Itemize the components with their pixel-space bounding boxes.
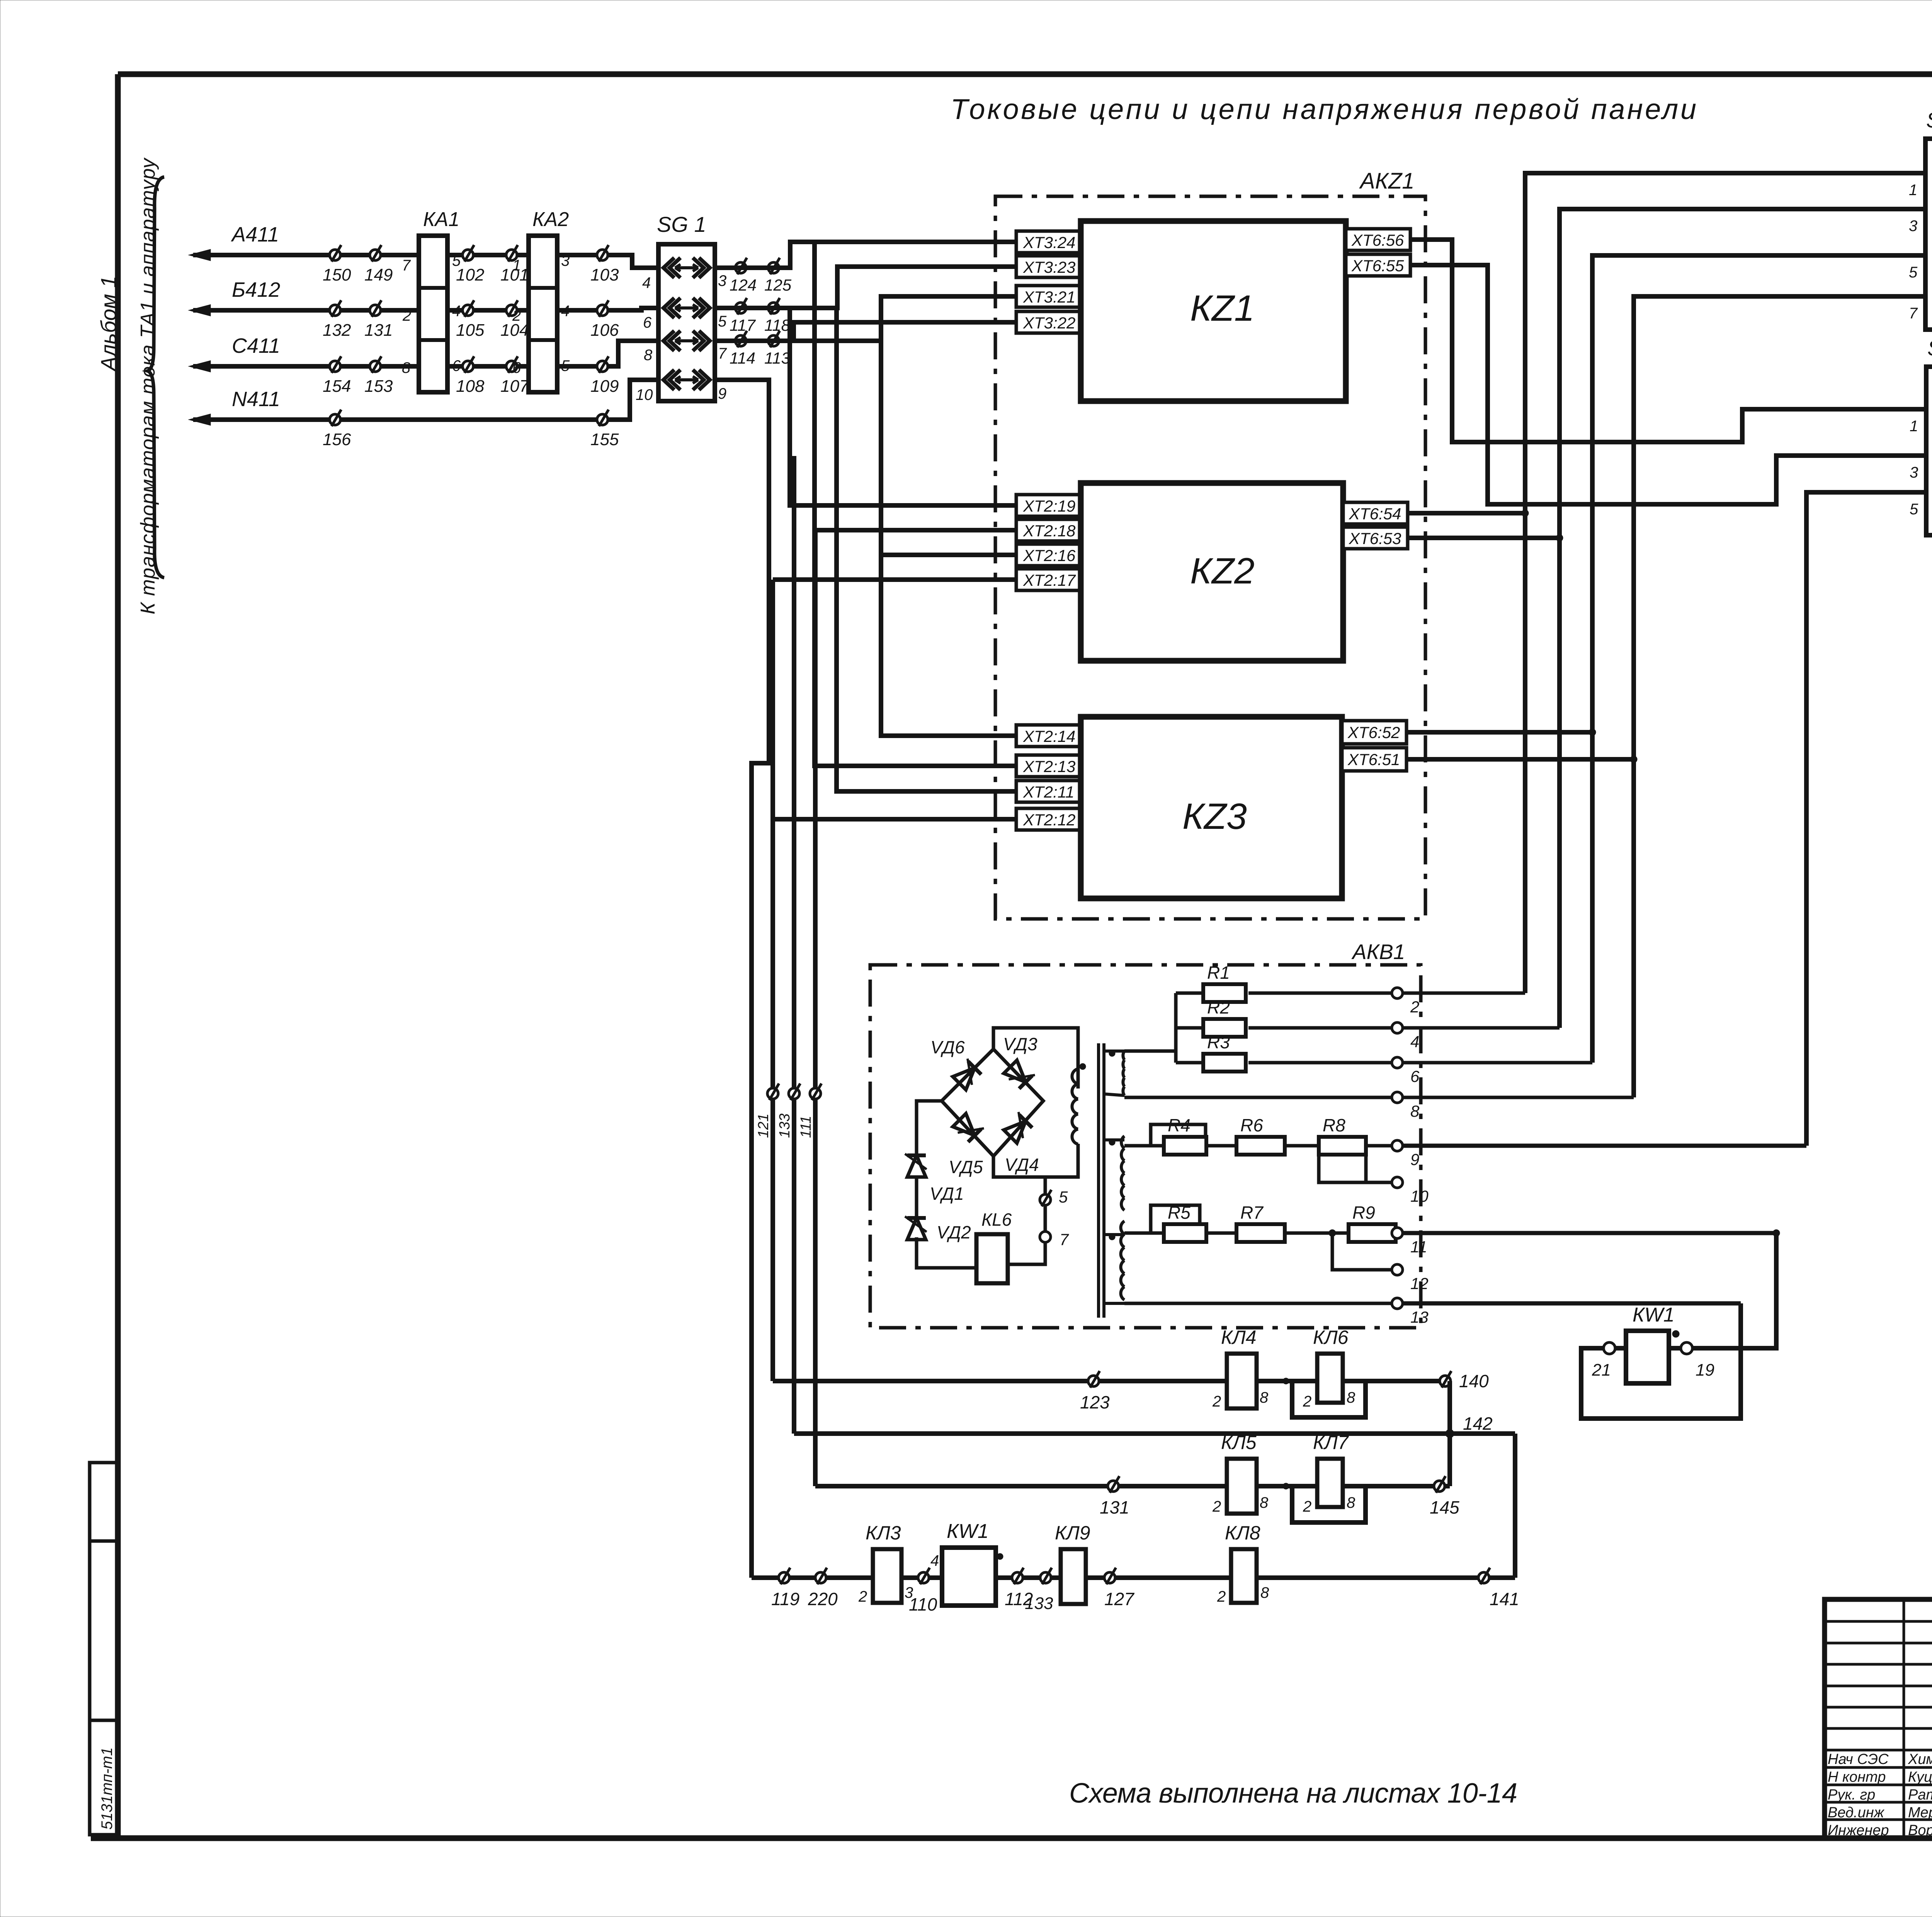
svg-text:2: 2 [1212, 1393, 1221, 1410]
wire vertical v2044 to XT2:19 [790, 308, 1016, 505]
wire vertical v2110 to XT2:18 and relay row 131 [813, 530, 818, 1486]
svg-text:VД6: VД6 [930, 1037, 965, 1057]
svg-text:ХТ6:52: ХТ6:52 [1347, 723, 1400, 742]
svg-text:1: 1 [1909, 182, 1917, 199]
svg-text:7: 7 [1909, 305, 1918, 322]
svg-text:Рук. гр: Рук. гр [1828, 1787, 1875, 1803]
svg-text:8: 8 [1410, 1102, 1420, 1120]
wire phase B vertical to SG3 and terminal 4 [1560, 209, 1925, 1028]
svg-text:ХТ2:19: ХТ2:19 [1023, 497, 1075, 515]
svg-text:2: 2 [1410, 998, 1419, 1016]
terminal 2 of AKB [1392, 988, 1403, 998]
contact 103 [597, 250, 608, 260]
diode VD6 [951, 1059, 983, 1090]
relay coil KL8 [1231, 1549, 1257, 1603]
terminal 8 of AKB [1392, 1092, 1403, 1103]
svg-text:ХТ6:54: ХТ6:54 [1349, 505, 1401, 523]
svg-text:R3: R3 [1207, 1032, 1230, 1052]
wire KL6 to terminals 7 and 5 [1008, 1243, 1045, 1264]
svg-text:ХТ2:17: ХТ2:17 [1023, 571, 1076, 589]
contact 105 [463, 305, 473, 316]
diode VD3 [1003, 1059, 1035, 1090]
contact 104 [506, 305, 517, 316]
svg-text:19: 19 [1696, 1361, 1714, 1379]
svg-text:КЛ3: КЛ3 [866, 1522, 901, 1544]
wire XT6:52 join phase C vertical [1406, 730, 1592, 735]
contact 132 [330, 305, 340, 316]
svg-text:13: 13 [1410, 1308, 1429, 1326]
left margin stamp box 3 [90, 1720, 119, 1835]
diode VD4 [1002, 1112, 1034, 1144]
contact 119 [779, 1572, 789, 1583]
wire phase line А411 [193, 255, 658, 268]
wire R8 to terminal 9 [1366, 1144, 1392, 1148]
terminal XT2:19 [1016, 495, 1081, 516]
svg-text:Токовые цепи и цепи напр: Токовые цепи и цепи напряжения первой па… [951, 93, 1696, 125]
wire KL6 bypass loop [1292, 1381, 1366, 1417]
svg-text:4: 4 [561, 303, 570, 320]
svg-text:131: 131 [364, 321, 393, 340]
svg-text:5131тп-т1: 5131тп-т1 [99, 1747, 116, 1830]
svg-text:КW1: КW1 [947, 1520, 989, 1543]
resistor R4 [1164, 1137, 1206, 1155]
svg-text:5: 5 [452, 252, 461, 269]
svg-text:3: 3 [1909, 218, 1917, 235]
resistor R8 [1319, 1137, 1366, 1155]
terminal XT6:55 [1346, 254, 1410, 276]
svg-text:127: 127 [1104, 1589, 1134, 1609]
svg-text:SG 1: SG 1 [657, 212, 706, 236]
wire jumper over R4 [1151, 1124, 1206, 1146]
svg-text:8: 8 [1260, 1494, 1269, 1511]
resistor R7 [1236, 1224, 1285, 1242]
terminal 10 of AKB [1392, 1177, 1403, 1188]
svg-text:ХТ6:51: ХТ6:51 [1347, 750, 1400, 769]
svg-text:6: 6 [452, 357, 461, 374]
svg-text:АКZ1: АКZ1 [1359, 168, 1415, 194]
terminal XT6:56 [1346, 229, 1410, 250]
wire SG1:5 to XT3:23 [715, 267, 1016, 308]
svg-text:VД3: VД3 [1003, 1034, 1037, 1054]
contact 118 [768, 303, 779, 313]
wire vertical v2000 to XT2:17 XT2:12 and relay row 123 [770, 580, 775, 1381]
svg-text:ХТ2:18: ХТ2:18 [1023, 522, 1076, 540]
svg-text:R6: R6 [1240, 1115, 1263, 1135]
resistor R5 [1164, 1224, 1206, 1242]
svg-text:8: 8 [1260, 1584, 1269, 1601]
terminal XT3:21 [1016, 286, 1081, 307]
wire XT6:53 join phase B vertical [1408, 536, 1560, 540]
svg-text:110: 110 [909, 1594, 937, 1614]
relay coil KL5 [1227, 1459, 1257, 1514]
svg-text:Нач СЭС: Нач СЭС [1828, 1751, 1889, 1767]
wire VD1 to VD2 [915, 1177, 918, 1216]
svg-text:107: 107 [500, 377, 529, 396]
svg-text:КЛ6: КЛ6 [1313, 1327, 1349, 1348]
diode VD5 [952, 1112, 984, 1144]
terminal XT2:16 [1016, 544, 1081, 566]
svg-text:111: 111 [798, 1116, 814, 1138]
terminal 12 of AKB [1392, 1264, 1403, 1275]
wire 142 to 141 vertical [1513, 1434, 1517, 1578]
svg-text:N411: N411 [232, 388, 280, 411]
wire secondary1 bottom to terminal 8 [1124, 1096, 1634, 1099]
svg-text:VД1: VД1 [930, 1184, 964, 1204]
svg-text:6: 6 [643, 314, 652, 331]
wire SG1:9 down to bottom relay row [715, 380, 769, 1578]
svg-text:ХТ3:23: ХТ3:23 [1023, 258, 1075, 276]
svg-text:131: 131 [1100, 1497, 1129, 1517]
terminal XT3:23 [1016, 256, 1081, 277]
contact 131a [370, 305, 381, 316]
svg-text:SG 3: SG 3 [1926, 108, 1932, 132]
svg-text:21: 21 [1592, 1361, 1611, 1379]
wire phase line Б412 [193, 308, 658, 310]
wire terminal 11 out [1403, 1231, 1776, 1235]
svg-text:Инженер: Инженер [1828, 1822, 1889, 1839]
border frame top line [118, 71, 1932, 77]
svg-text:2: 2 [402, 307, 411, 324]
wire bridge AC bottom to transformer primary [993, 1144, 1078, 1177]
wire SG1:7 to XT3:22 and XT3:21 [715, 322, 1016, 341]
svg-text:7: 7 [718, 345, 727, 362]
test block SG4 [1926, 367, 1932, 535]
svg-text:9: 9 [718, 385, 726, 402]
svg-text:КZ2: КZ2 [1190, 551, 1255, 592]
svg-text:121: 121 [755, 1114, 772, 1138]
wire SG1:3 to XT3:24 [715, 242, 1016, 268]
polarity dot KW1 [1672, 1330, 1679, 1337]
svg-text:133: 133 [777, 1114, 793, 1138]
svg-text:133: 133 [1025, 1594, 1053, 1613]
border frame left line [115, 74, 121, 1837]
svg-text:8: 8 [1260, 1389, 1269, 1406]
terminal 7 circle [1040, 1232, 1051, 1242]
svg-text:132: 132 [323, 321, 351, 340]
wire terminal 13 to KW1 loop [1581, 1303, 1741, 1419]
svg-text:109: 109 [590, 377, 619, 396]
contact 106 [597, 305, 608, 316]
contact 156 [330, 414, 340, 425]
wire 140 down to 145 [1447, 1381, 1452, 1486]
wire phase A vertical to SG3 and terminal 2 [1525, 173, 1925, 993]
svg-text:КЛ9: КЛ9 [1055, 1522, 1090, 1544]
svg-text:156: 156 [323, 430, 351, 449]
left brace grouping CT circuits [148, 177, 164, 578]
svg-text:8: 8 [402, 359, 411, 376]
svg-text:КА1: КА1 [423, 208, 459, 231]
resistor R2 [1203, 1019, 1246, 1037]
svg-text:155: 155 [590, 430, 619, 449]
svg-text:R7: R7 [1240, 1203, 1264, 1223]
svg-text:КЛ4: КЛ4 [1221, 1327, 1257, 1348]
terminal 13 of AKB [1392, 1298, 1403, 1309]
SG1 contact symbol [663, 331, 680, 351]
svg-text:141: 141 [1490, 1589, 1519, 1609]
wire vertical v2280 to XT2:16 and XT2:14 [881, 341, 1016, 736]
svg-text:ХТ2:11: ХТ2:11 [1023, 783, 1074, 801]
contact 121 on vertical [767, 1088, 778, 1099]
resistor R9 [1349, 1224, 1396, 1242]
contact 110 [918, 1572, 929, 1583]
wire phase line N411 [193, 380, 658, 420]
svg-text:КL6: КL6 [981, 1209, 1012, 1230]
svg-text:Вед.инж: Вед.инж [1828, 1805, 1885, 1821]
SG1 contact symbol [663, 258, 680, 278]
arrow head N411 [189, 414, 211, 425]
device block AKB dash-dot boundary [870, 965, 1421, 1328]
svg-text:1: 1 [512, 257, 521, 274]
svg-text:Хименко: Хименко [1908, 1751, 1932, 1767]
contact 21 of KW1 [1604, 1342, 1615, 1354]
svg-text:5: 5 [561, 357, 570, 374]
svg-text:12: 12 [1410, 1274, 1429, 1293]
contact 220 [815, 1572, 826, 1583]
contact 113 [768, 335, 779, 346]
contact 112 [1012, 1572, 1023, 1583]
svg-text:АКВ1: АКВ1 [1351, 940, 1405, 964]
terminal XT2:11 [1016, 781, 1081, 802]
svg-text:119: 119 [771, 1589, 799, 1609]
contact 131 [1108, 1481, 1119, 1492]
wire bridge AC top to transformer primary [993, 1028, 1078, 1089]
device block AKZ1 dash-dot boundary [995, 196, 1425, 919]
svg-text:4: 4 [452, 303, 461, 320]
wire R3 to terminal 6 [1248, 1061, 1592, 1065]
svg-text:10: 10 [636, 386, 653, 403]
svg-text:7: 7 [402, 257, 411, 274]
relay unit KZ2 [1081, 483, 1343, 661]
svg-text:КА2: КА2 [532, 208, 569, 231]
svg-text:ХТ6:53: ХТ6:53 [1349, 529, 1401, 548]
svg-text:103: 103 [590, 265, 619, 284]
svg-text:ХТ3:24: ХТ3:24 [1023, 233, 1075, 252]
svg-text:КЛ8: КЛ8 [1225, 1522, 1260, 1544]
svg-text:ХТ2:14: ХТ2:14 [1023, 727, 1075, 745]
svg-text:Ворсина: Ворсина [1908, 1822, 1932, 1839]
svg-text:2: 2 [512, 307, 521, 324]
svg-text:Альбом 1: Альбом 1 [96, 276, 121, 372]
node 142 [1446, 1429, 1454, 1438]
terminal XT3:22 [1016, 311, 1081, 333]
terminal 11 of AKB [1392, 1228, 1403, 1238]
wire XT6:51 join phase N vertical [1406, 757, 1634, 762]
svg-text:125: 125 [764, 276, 792, 294]
contact 108 [463, 361, 473, 372]
svg-text:SG 4: SG 4 [1927, 336, 1932, 360]
wire XT6:55 to SG4 K row [1410, 265, 1926, 504]
terminal XT2:17 [1016, 569, 1081, 590]
svg-text:8: 8 [1347, 1494, 1355, 1511]
contact 133 on vertical [789, 1088, 799, 1099]
svg-text:Куценко: Куценко [1908, 1769, 1932, 1785]
contact 149 [370, 250, 381, 260]
resistor R3 [1203, 1054, 1246, 1072]
svg-text:105: 105 [456, 321, 485, 340]
wire VD2 to KL6 [917, 1237, 976, 1268]
svg-text:ХТ3:21: ХТ3:21 [1023, 288, 1075, 306]
current relay coil KA2 [529, 236, 557, 392]
relay coil KL3 [873, 1549, 901, 1603]
svg-text:106: 106 [590, 321, 619, 340]
diode VD1 [905, 1154, 927, 1177]
svg-text:7: 7 [1060, 1230, 1069, 1249]
relay coil KL7 [1317, 1459, 1343, 1507]
wire relay row 119-141 [752, 1575, 1484, 1580]
title block signature grid horizontals [1825, 1620, 1932, 1623]
contact 101 [506, 250, 517, 260]
svg-text:2: 2 [858, 1588, 867, 1605]
wire secondary1 to R bus [1124, 1050, 1176, 1053]
wire relay row 123-140 [773, 1379, 1445, 1383]
relay coil KL4 [1227, 1354, 1257, 1408]
svg-text:145: 145 [1430, 1497, 1459, 1517]
svg-text:6: 6 [1410, 1067, 1420, 1085]
contact 114 [735, 335, 746, 346]
terminal XT2:12 [1016, 808, 1081, 830]
svg-text:220: 220 [808, 1589, 838, 1609]
svg-text:149: 149 [364, 265, 393, 284]
wire phase N vertical to SG3 and terminal 8 [1634, 296, 1925, 1097]
wire bridge DC minus to VD1 VD2 chain [917, 1101, 942, 1156]
svg-text:Схема выполнена на листах 1: Схема выполнена на листах 10-14 [1069, 1778, 1517, 1809]
wire relay row 131-145 [815, 1484, 1450, 1488]
svg-text:КZ1: КZ1 [1190, 288, 1255, 329]
svg-text:1: 1 [1910, 418, 1918, 435]
transformer secondary winding 2 [1121, 1136, 1124, 1148]
arrow head Б412 [189, 304, 211, 316]
svg-text:R4: R4 [1168, 1115, 1190, 1135]
diode VD2 [905, 1216, 927, 1240]
node 145 [1434, 1481, 1445, 1492]
svg-text:Ратнко: Ратнко [1908, 1787, 1932, 1803]
terminal XT6:54 [1343, 502, 1408, 524]
svg-text:Меркулов: Меркулов [1908, 1805, 1932, 1821]
wire R8 bypass loop to terminal 10 [1319, 1155, 1366, 1182]
wire SG4 U row left vertical [1806, 492, 1926, 1146]
terminal 9 of AKB [1392, 1140, 1403, 1151]
svg-text:2: 2 [1303, 1393, 1311, 1410]
svg-text:R2: R2 [1207, 997, 1230, 1017]
terminal XT2:18 [1016, 519, 1081, 541]
title block signature grid verticals [1903, 1599, 1905, 1838]
wire bridge diamond sides [942, 1049, 1043, 1156]
svg-text:114: 114 [730, 349, 755, 367]
terminal XT6:51 [1342, 748, 1406, 771]
relay unit KZ3 [1081, 717, 1342, 898]
svg-text:КZ3: КZ3 [1182, 796, 1247, 837]
terminal XT2:13 [1016, 755, 1081, 777]
svg-text:5: 5 [718, 313, 727, 330]
relay coil KL6b [1317, 1354, 1343, 1403]
contact 127 [1104, 1572, 1115, 1583]
svg-text:11: 11 [1410, 1238, 1427, 1256]
wire secondary2 row [1124, 1144, 1164, 1148]
svg-text:10: 10 [1410, 1187, 1429, 1205]
svg-text:124: 124 [730, 276, 757, 294]
wire phase C vertical to SG3 and terminal 6 [1592, 255, 1925, 1063]
terminal 6 of AKB [1392, 1057, 1403, 1068]
current relay coil KA1 [419, 236, 447, 392]
svg-text:5: 5 [1059, 1188, 1068, 1206]
svg-text:ХТ6:56: ХТ6:56 [1351, 231, 1404, 249]
terminal 5 contact [1040, 1194, 1051, 1205]
svg-text:118: 118 [764, 316, 791, 334]
terminal 4 of AKB [1392, 1022, 1403, 1033]
svg-text:142: 142 [1463, 1414, 1493, 1434]
resistor R6 [1236, 1137, 1285, 1155]
relay KW1 contact block [942, 1548, 996, 1606]
terminal XT2:14 [1016, 725, 1081, 747]
relay coil KW1 [1626, 1331, 1669, 1383]
wire row 142 [794, 1431, 1515, 1436]
svg-text:А411: А411 [231, 223, 279, 246]
contact 125 [768, 262, 779, 273]
contact 109 [597, 361, 608, 372]
svg-text:С411: С411 [232, 334, 280, 357]
svg-text:4: 4 [642, 274, 651, 291]
svg-text:123: 123 [1080, 1392, 1110, 1412]
svg-text:3: 3 [718, 272, 726, 289]
wire R group left bus [1174, 993, 1178, 1063]
relay unit KZ1 [1081, 221, 1346, 401]
contact 117 [735, 303, 746, 313]
contact 154 [330, 361, 340, 372]
border frame bottom line [91, 1835, 1932, 1841]
title block outer frame [1825, 1599, 1932, 1838]
polarity dots [1109, 1050, 1115, 1056]
svg-text:108: 108 [456, 377, 485, 396]
contact 19 of KW1 [1681, 1342, 1692, 1354]
junction on row 131 [1283, 1483, 1289, 1489]
contact 124 [735, 262, 746, 273]
svg-text:R1: R1 [1207, 963, 1230, 983]
svg-text:4: 4 [930, 1552, 939, 1569]
svg-text:ХТ6:55: ХТ6:55 [1351, 257, 1404, 275]
svg-text:5: 5 [1910, 501, 1918, 518]
svg-text:КW1: КW1 [1633, 1304, 1675, 1326]
svg-text:2: 2 [1212, 1498, 1221, 1515]
arrow head С411 [189, 361, 211, 372]
svg-text:VД5: VД5 [949, 1157, 983, 1177]
svg-text:КЛ5: КЛ5 [1221, 1432, 1257, 1453]
svg-text:Н контр: Н контр [1828, 1769, 1886, 1785]
svg-text:140: 140 [1459, 1371, 1489, 1391]
wire KW1 to terminal 11 line [1692, 1233, 1776, 1348]
svg-text:113: 113 [764, 349, 790, 367]
svg-text:154: 154 [323, 377, 351, 396]
wire vertical v2165 to XT2:11 [837, 308, 1016, 791]
test block SG3 [1925, 139, 1932, 330]
svg-text:VД4: VД4 [1005, 1155, 1039, 1175]
svg-text:ХТ3:22: ХТ3:22 [1023, 314, 1075, 332]
svg-text:R9: R9 [1352, 1203, 1375, 1223]
arrow head А411 [189, 249, 211, 261]
svg-text:2: 2 [1303, 1498, 1311, 1515]
wire phase line С411 [193, 341, 658, 366]
svg-text:ХТ2:13: ХТ2:13 [1023, 757, 1075, 776]
svg-text:150: 150 [323, 265, 351, 284]
svg-text:ХТ2:16: ХТ2:16 [1023, 546, 1076, 565]
contact 153 [370, 361, 381, 372]
svg-text:8: 8 [644, 347, 653, 364]
svg-text:2: 2 [1217, 1588, 1226, 1605]
wire secondary3 bottom to terminal 13 [1124, 1302, 1392, 1305]
svg-text:R5: R5 [1168, 1203, 1190, 1223]
wire vertical v2055 to 142 row [792, 456, 796, 1434]
contact 123 [1088, 1376, 1099, 1386]
terminal XT6:52 [1342, 721, 1406, 744]
